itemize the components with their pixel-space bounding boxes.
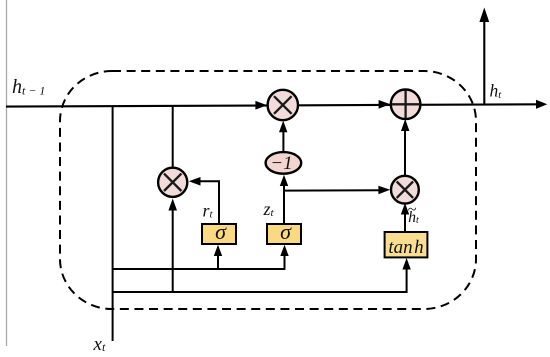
svg-text:σ: σ <box>280 219 292 244</box>
wire: output arrowhead right <box>536 100 547 109</box>
arrowhead into multiplier A <box>255 101 267 110</box>
wire: multiplier D output up to adder B <box>404 130 406 176</box>
dashed cell boundary <box>60 71 476 309</box>
wire: sigma z output up <box>283 185 285 226</box>
arrowhead into adder B <box>379 100 391 109</box>
wire: branch to sigma r <box>217 255 219 269</box>
wire: h tap down to multiplier C <box>172 106 174 168</box>
multiplier C <box>158 168 187 197</box>
svg-text:σ: σ <box>215 219 227 244</box>
tanh box <box>385 232 428 257</box>
inverter -1 ellipse <box>266 152 302 174</box>
wire: bus line2 to tanh <box>113 269 407 292</box>
adder B <box>391 90 421 120</box>
svg-text:−1: −1 <box>270 153 292 174</box>
wire: -1 output up to multiplier A <box>282 131 284 152</box>
wire: line2 up to multiplier C <box>172 208 174 292</box>
left faint border line <box>6 0 8 346</box>
svg-text:tan h: tan h <box>388 237 423 258</box>
wire: x_t vertical line <box>112 106 114 341</box>
wire: vertical up output arrow <box>483 19 485 104</box>
sigma box z <box>267 224 301 244</box>
wire: sigma r output to multiplier C <box>199 181 219 225</box>
multiplier A (on h line) <box>268 90 298 120</box>
wire: h(t-1) main horizontal line <box>6 104 539 106</box>
wire: bus line1 <box>113 255 285 269</box>
multiplier D <box>391 176 419 204</box>
svg-text:~: ~ <box>408 202 417 219</box>
wire: tanh output up to multiplier D <box>404 213 406 232</box>
wire: z branch to multiplier D <box>284 189 380 191</box>
sigma box r <box>202 224 236 244</box>
